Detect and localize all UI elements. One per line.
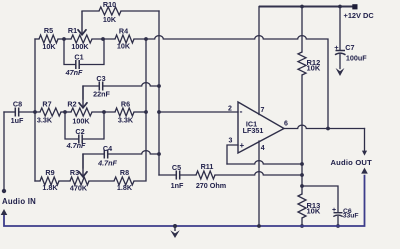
wire C4 wiper stem [82,154,84,168]
wire R2 to R6 [92,111,115,113]
wire C8 left lead [4,111,15,113]
node junction R7/R2/C2 [63,110,67,114]
resistor R11 [196,171,215,179]
svg-text:1.8K: 1.8K [42,183,58,192]
node junction R6 / bass vertical [144,110,148,114]
resistor R6 [115,108,134,116]
capacitor C7 (polarized) [336,50,346,52]
capacitor C8 [15,108,18,117]
svg-text:1.8K: 1.8K [117,183,133,192]
svg-text:100uF: 100uF [346,53,367,62]
node junction pin4 / ground rail [257,224,261,228]
wire audio input vertical [3,112,5,189]
svg-text:R5: R5 [44,26,53,35]
svg-text:22nF: 22nF [93,90,110,99]
terminal Audio IN signal [2,189,6,193]
wire R3 to R8 [89,180,114,182]
svg-text:4.7nF: 4.7nF [66,141,86,150]
wire C1 loop [64,39,104,65]
svg-text:470K: 470K [70,184,88,193]
wire R9 left lead [35,180,40,182]
wire op-amp pin 7 to +12V rail [258,7,260,115]
svg-text:3: 3 [229,138,233,145]
wire R7 to R2 [61,111,71,113]
svg-text:3.3K: 3.3K [37,116,53,125]
wire R8 right lead / bass vertical up [134,39,146,181]
wire R13 to ground rail [301,218,303,226]
node junction bias rail / +12V [300,5,304,9]
wire net A vertical (pin2 net) [158,11,160,175]
svg-text:3.3K: 3.3K [118,116,134,125]
resistor R12 [298,52,306,75]
svg-text:1uF: 1uF [11,116,24,125]
wire C3 wiper stem [82,86,84,99]
svg-text:-: - [240,107,243,117]
svg-text:Audio IN: Audio IN [2,197,36,206]
node junction C3 / net A [157,84,161,88]
svg-text:+: + [334,43,339,52]
node junction output / feedback tap [326,127,330,131]
resistor R9 [40,177,59,185]
wire C4 row to net A [83,151,159,154]
svg-text:R6: R6 [121,100,130,109]
svg-text:+: + [239,141,244,150]
svg-text:+: + [332,207,336,214]
wire bias vertical top [301,7,303,53]
wire op-amp output pin 6 (bump over bias rail) [284,125,365,128]
svg-text:C2: C2 [75,127,84,136]
wire +12V to C7 [339,7,341,50]
svg-text:C1: C1 [74,53,83,62]
wire R4 right lead to feedback corner (bumps over nets) [134,36,328,129]
resistor R13 [298,194,306,218]
svg-text:R8: R8 [120,168,129,177]
wire C8 to R7 [19,111,40,113]
svg-text:C4: C4 [103,144,112,153]
svg-text:100K: 100K [71,42,89,51]
wire R5 left lead [35,38,39,40]
ground rail bottom [4,175,365,226]
svg-text:10K: 10K [103,15,117,24]
terminal Audio OUT ground (up arrow) [361,168,368,174]
svg-text:1nF: 1nF [171,181,184,190]
svg-text:4.7nF: 4.7nF [97,158,117,167]
svg-text:270 Ohm: 270 Ohm [196,181,226,190]
svg-text:+12V DC: +12V DC [344,11,375,20]
wire +12V top supply rail [259,6,353,8]
svg-text:10K: 10K [42,42,56,51]
node junction pin3 / bias rail [300,162,304,166]
node junction R11 / bias rail [300,173,304,177]
svg-text:100K: 100K [72,117,90,126]
wire op-amp pin 3 lead [227,145,238,164]
wire C3 left corner to R2 wiper [83,83,159,86]
wire R11 to bias node (bump over pin4) [215,172,302,175]
node junction R4 row / bass vertical [144,37,148,41]
svg-text:C7: C7 [345,43,354,52]
svg-text:10K: 10K [307,207,321,216]
node junction R13 / ground rail [300,224,304,228]
svg-text:C3: C3 [96,74,105,83]
node junction input column / R7 [33,110,37,114]
resistor R5 [39,35,58,43]
op-amp U1 LF351 triangle [238,102,284,153]
svg-text:7: 7 [261,107,265,114]
wire C7 lower lead [339,55,341,69]
potentiometer wiper arrow of R3 [82,154,84,177]
capacitor C3 [99,82,102,91]
svg-text:4: 4 [261,145,265,152]
svg-text:Audio OUT: Audio OUT [331,158,373,167]
wire bias vertical middle [301,75,303,194]
resistor R8 [114,177,134,185]
resistor R10 [99,7,121,15]
svg-text:6: 6 [284,121,288,128]
ground symbol on bottom rail [173,224,177,228]
wire R10 right lead [121,10,159,12]
potentiometer wiper arrow of R2 [82,86,84,108]
+12V DC square terminal [352,4,357,9]
svg-text:LF351: LF351 [243,126,264,135]
node junction R5/R1/C1 [62,37,66,41]
node junction R2/R6/C2 [102,110,106,114]
wire pin 3 to bias node (bump over pin4) [227,161,302,164]
ground symbol below C7 [336,68,345,76]
wire net A to op-amp pin 2 [159,111,238,113]
svg-text:R9: R9 [45,168,54,177]
capacitor C5 [176,171,179,180]
terminal Audio IN ground (up arrow) [1,209,8,215]
wire R5 to R1 [58,38,71,40]
wire R6 right lead [134,111,146,113]
potentiometer R1 [71,35,92,43]
svg-text:R2: R2 [67,100,76,109]
potentiometer wiper arrow of R1 [81,11,83,35]
node junction R1/R4/C1 [101,37,105,41]
wire C2 loop [65,112,104,139]
svg-text:R1: R1 [68,26,77,35]
node junction C6 / ground rail [336,224,340,228]
wire net A down corner to C5 [159,174,176,176]
capacitor C1 [76,60,79,69]
capacitor C2 [79,135,82,144]
svg-text:47nF: 47nF [65,68,83,77]
svg-text:33uF: 33uF [343,213,359,220]
wire C6 branch [302,186,338,226]
wire op-amp pin 4 to ground rail [258,141,260,226]
wire R1 to R4 [92,38,115,40]
node junction +12V / C7 [338,5,342,9]
svg-text:R3: R3 [70,168,79,177]
node junction bias / C6 branch [300,184,304,188]
svg-text:10K: 10K [307,64,321,73]
svg-text:R10: R10 [103,0,116,9]
svg-text:C8: C8 [13,100,22,109]
capacitor C6 (polarized) [334,212,343,214]
node junction pin2 wire / net A [157,110,161,114]
potentiometer R3 [70,177,89,185]
wire R9 to R3 [59,180,70,182]
svg-text:R7: R7 [42,100,51,109]
node junction C4 / net A [157,152,161,156]
terminal Audio OUT signal [362,151,367,156]
resistor R4 [115,35,134,43]
svg-text:R4: R4 [119,27,128,36]
svg-text:10K: 10K [117,42,131,51]
wire output corner down to terminal [364,129,366,151]
svg-text:C5: C5 [172,163,181,172]
capacitor C4 [104,150,107,159]
wire left column vertical (input node) [34,39,36,181]
potentiometer R2 [71,108,92,116]
wire R10 left lead / corner to R1 wiper [82,10,99,12]
wire C5 to R11 [180,174,196,176]
resistor R7 [40,108,61,116]
svg-text:2: 2 [228,106,232,113]
svg-text:R11: R11 [201,162,214,171]
